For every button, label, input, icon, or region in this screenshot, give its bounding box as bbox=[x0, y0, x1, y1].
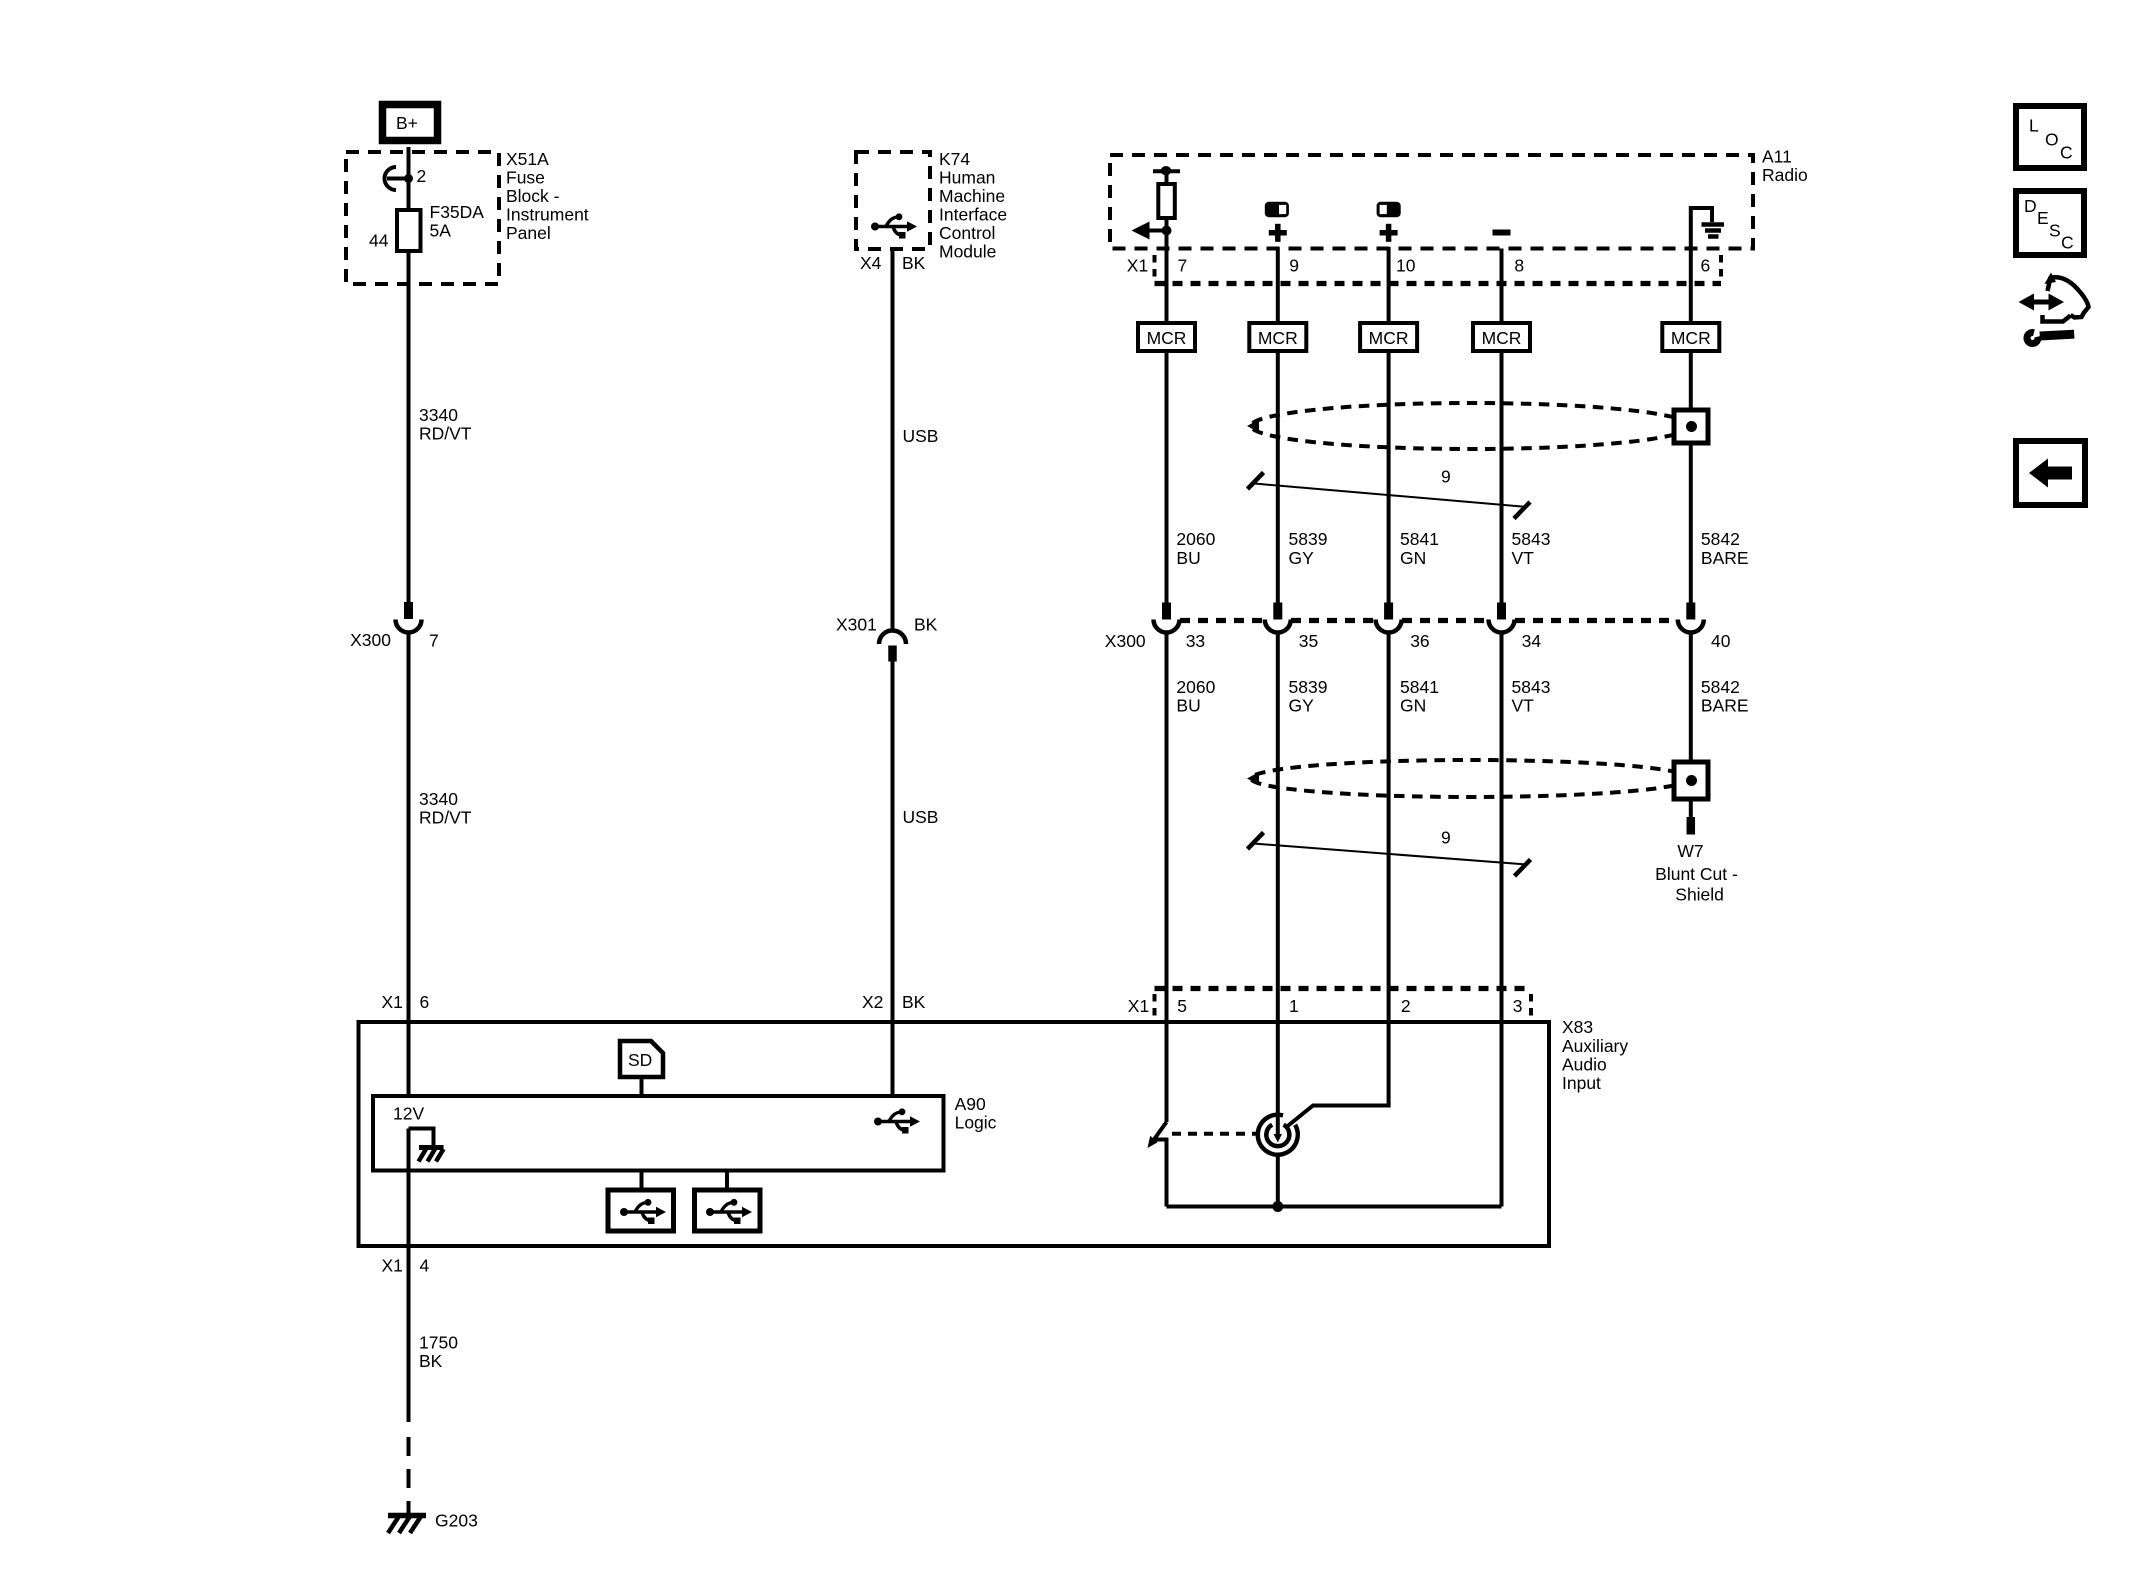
svg-text:O: O bbox=[2045, 130, 2059, 150]
svg-text:Radio: Radio bbox=[1762, 165, 1808, 185]
svg-text:E: E bbox=[2037, 208, 2049, 228]
svg-text:A11: A11 bbox=[1762, 147, 1792, 167]
svg-text:BK: BK bbox=[914, 615, 938, 635]
svg-text:BU: BU bbox=[1176, 695, 1200, 715]
svg-text:GN: GN bbox=[1400, 695, 1426, 715]
svg-text:GY: GY bbox=[1289, 695, 1315, 715]
svg-text:8: 8 bbox=[1514, 255, 1524, 275]
svg-text:X301: X301 bbox=[836, 615, 877, 635]
svg-text:5: 5 bbox=[1177, 996, 1187, 1016]
svg-text:Interface: Interface bbox=[939, 205, 1007, 225]
svg-text:6: 6 bbox=[420, 992, 430, 1012]
svg-text:GY: GY bbox=[1289, 548, 1315, 568]
svg-text:X2: X2 bbox=[862, 992, 883, 1012]
svg-text:D: D bbox=[2024, 196, 2037, 216]
svg-text:MCR: MCR bbox=[1369, 328, 1409, 348]
svg-text:5841: 5841 bbox=[1400, 677, 1439, 697]
svg-text:4: 4 bbox=[420, 1256, 430, 1276]
svg-text:36: 36 bbox=[1410, 631, 1429, 651]
svg-text:K74: K74 bbox=[939, 149, 970, 169]
svg-text:3: 3 bbox=[1513, 996, 1523, 1016]
svg-text:Module: Module bbox=[939, 242, 996, 262]
svg-text:5842: 5842 bbox=[1701, 677, 1740, 697]
svg-text:X1: X1 bbox=[382, 992, 403, 1012]
svg-text:X4: X4 bbox=[860, 253, 882, 273]
svg-text:RD/VT: RD/VT bbox=[419, 424, 472, 444]
svg-text:BK: BK bbox=[419, 1351, 443, 1371]
svg-text:9: 9 bbox=[1289, 255, 1299, 275]
svg-text:44: 44 bbox=[369, 231, 389, 251]
svg-text:W7: W7 bbox=[1677, 841, 1703, 861]
svg-text:5839: 5839 bbox=[1289, 677, 1328, 697]
svg-text:VT: VT bbox=[1512, 695, 1535, 715]
svg-text:7: 7 bbox=[429, 631, 439, 651]
svg-text:MCR: MCR bbox=[1482, 328, 1522, 348]
svg-text:C: C bbox=[2060, 143, 2073, 163]
svg-text:B+: B+ bbox=[396, 113, 418, 133]
svg-text:Auxiliary: Auxiliary bbox=[1562, 1036, 1628, 1056]
svg-text:Input: Input bbox=[1562, 1073, 1601, 1093]
svg-text:A90: A90 bbox=[955, 1094, 986, 1114]
svg-text:SD: SD bbox=[628, 1050, 652, 1070]
svg-text:5842: 5842 bbox=[1701, 529, 1740, 549]
svg-text:5A: 5A bbox=[430, 221, 452, 241]
svg-text:F35DA: F35DA bbox=[430, 202, 485, 222]
svg-text:Fuse: Fuse bbox=[506, 168, 545, 188]
svg-text:MCR: MCR bbox=[1258, 328, 1298, 348]
svg-text:3340: 3340 bbox=[419, 405, 458, 425]
svg-text:USB: USB bbox=[903, 426, 939, 446]
svg-text:9: 9 bbox=[1441, 467, 1451, 487]
svg-text:RD/VT: RD/VT bbox=[419, 808, 472, 828]
svg-text:1750: 1750 bbox=[419, 1333, 458, 1353]
svg-text:BK: BK bbox=[902, 992, 926, 1012]
svg-text:Human: Human bbox=[939, 168, 995, 188]
svg-text:USB: USB bbox=[903, 807, 939, 827]
svg-text:X300: X300 bbox=[350, 630, 391, 650]
svg-text:C: C bbox=[2061, 233, 2074, 253]
svg-text:40: 40 bbox=[1711, 631, 1731, 651]
svg-text:33: 33 bbox=[1186, 631, 1205, 651]
svg-text:Shield: Shield bbox=[1675, 884, 1724, 904]
svg-text:5843: 5843 bbox=[1512, 677, 1551, 697]
svg-text:5841: 5841 bbox=[1400, 529, 1439, 549]
svg-text:X1: X1 bbox=[382, 1256, 403, 1276]
svg-text:X300: X300 bbox=[1105, 631, 1146, 651]
svg-text:Logic: Logic bbox=[955, 1113, 997, 1133]
svg-text:MCR: MCR bbox=[1147, 328, 1187, 348]
svg-text:BK: BK bbox=[902, 253, 926, 273]
svg-text:Machine: Machine bbox=[939, 186, 1005, 206]
svg-text:GN: GN bbox=[1400, 548, 1426, 568]
svg-text:6: 6 bbox=[1701, 255, 1711, 275]
svg-text:Panel: Panel bbox=[506, 223, 551, 243]
svg-text:2: 2 bbox=[417, 166, 427, 186]
svg-text:S: S bbox=[2049, 221, 2061, 241]
svg-text:12V: 12V bbox=[393, 1104, 424, 1124]
svg-text:7: 7 bbox=[1178, 255, 1188, 275]
svg-text:X1: X1 bbox=[1127, 255, 1148, 275]
svg-text:X1: X1 bbox=[1128, 996, 1149, 1016]
svg-text:9: 9 bbox=[1441, 828, 1451, 848]
svg-text:Instrument: Instrument bbox=[506, 205, 589, 225]
svg-text:Blunt Cut -: Blunt Cut - bbox=[1655, 864, 1738, 884]
svg-text:Block -: Block - bbox=[506, 186, 560, 206]
svg-text:L: L bbox=[2029, 116, 2039, 136]
svg-text:Audio: Audio bbox=[1562, 1054, 1607, 1074]
svg-text:BARE: BARE bbox=[1701, 695, 1749, 715]
svg-text:VT: VT bbox=[1512, 548, 1535, 568]
svg-text:BARE: BARE bbox=[1701, 548, 1749, 568]
svg-text:3340: 3340 bbox=[419, 789, 458, 809]
svg-text:Control: Control bbox=[939, 223, 995, 243]
svg-text:34: 34 bbox=[1522, 631, 1542, 651]
svg-text:5839: 5839 bbox=[1289, 529, 1328, 549]
svg-text:35: 35 bbox=[1299, 631, 1318, 651]
svg-text:1: 1 bbox=[1289, 996, 1299, 1016]
svg-text:2060: 2060 bbox=[1176, 677, 1215, 697]
svg-text:2: 2 bbox=[1401, 996, 1411, 1016]
svg-text:10: 10 bbox=[1396, 255, 1416, 275]
svg-text:2060: 2060 bbox=[1176, 529, 1215, 549]
svg-text:X83: X83 bbox=[1562, 1017, 1593, 1037]
svg-text:G203: G203 bbox=[435, 1511, 478, 1531]
svg-text:5843: 5843 bbox=[1512, 529, 1551, 549]
svg-text:X51A: X51A bbox=[506, 149, 549, 169]
svg-text:MCR: MCR bbox=[1671, 328, 1711, 348]
svg-text:BU: BU bbox=[1176, 548, 1200, 568]
